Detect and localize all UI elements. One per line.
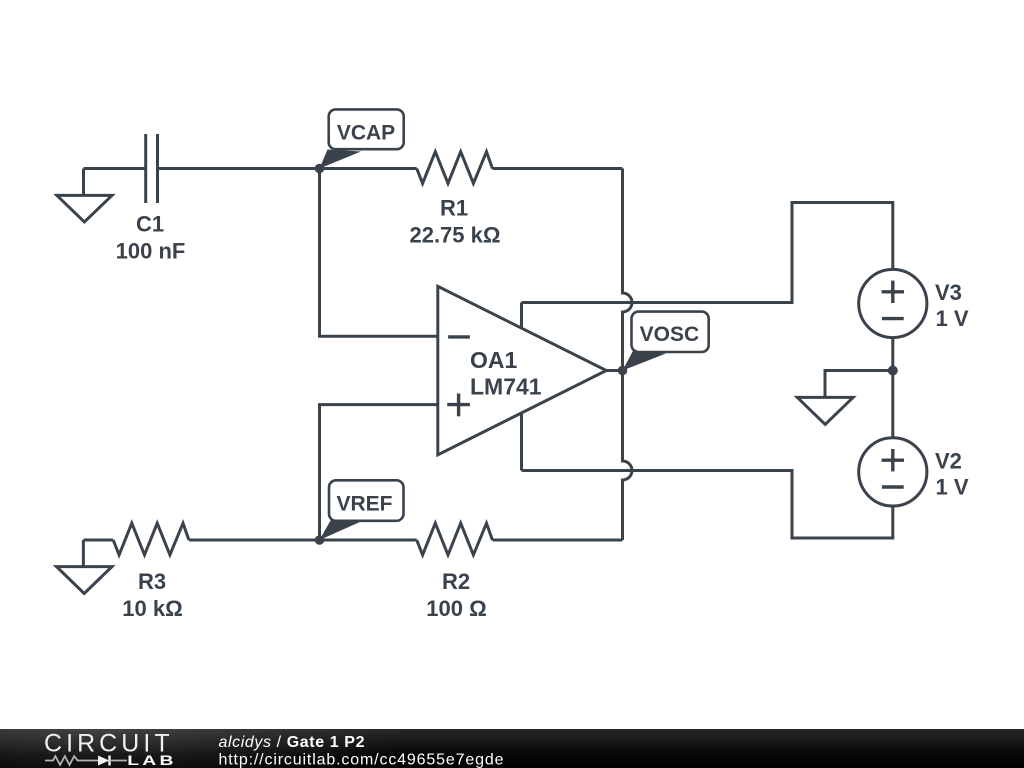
- net label VREF: [320, 480, 404, 540]
- node VREF dot: [315, 535, 325, 545]
- wire VCAP vertical to inverting input: [320, 169, 438, 337]
- logo diode: [98, 755, 109, 765]
- resistor R3: [113, 523, 189, 555]
- resistor R2: [417, 523, 493, 555]
- wire top-left to C1: [84, 167, 146, 170]
- svg-text:R2: R2: [442, 569, 470, 594]
- wire C1 to node VCAP: [158, 167, 417, 170]
- svg-text:V3: V3: [935, 280, 962, 305]
- op-amp power stub top: [520, 303, 523, 329]
- svg-text:C1: C1: [136, 211, 164, 236]
- node VCAP dot: [315, 164, 325, 174]
- svg-text:22.75 kΩ: 22.75 kΩ: [409, 222, 500, 247]
- wire mid node to V2 top: [891, 371, 894, 439]
- wire V3 bottom to mid node: [891, 338, 894, 371]
- ground (bottom-left): [82, 540, 85, 566]
- wire bottom supply to V2: [522, 471, 893, 539]
- svg-text:100 Ω: 100 Ω: [426, 596, 486, 621]
- wire mid node to ground (right): [825, 371, 893, 398]
- svg-text:VOSC: VOSC: [640, 323, 700, 346]
- resistor R1: [417, 152, 493, 184]
- voltage source V2: [859, 438, 927, 506]
- voltage source V3: [859, 269, 927, 337]
- footer bar: [0, 729, 1024, 768]
- svg-text:VCAP: VCAP: [337, 122, 395, 145]
- svg-text:LM741: LM741: [470, 373, 542, 399]
- ground (right): [797, 397, 853, 424]
- wire bottom-left to R3: [83, 539, 113, 542]
- ground (top-left): [82, 169, 85, 196]
- op-amp plus input symbol: [447, 403, 470, 406]
- op-amp OA1 triangle: [438, 286, 607, 455]
- svg-text:V2: V2: [935, 449, 962, 474]
- svg-text:R3: R3: [138, 569, 166, 594]
- svg-text:OA1: OA1: [470, 347, 518, 373]
- wire top supply to V3: [522, 203, 893, 303]
- wire R3 to node VREF: [189, 539, 417, 542]
- node VOSC dot: [618, 366, 628, 376]
- wire VREF vertical to non-inverting input: [320, 405, 438, 540]
- svg-text:LAB: LAB: [127, 752, 177, 768]
- svg-text:VREF: VREF: [336, 493, 392, 516]
- svg-text:1 V: 1 V: [936, 306, 969, 331]
- svg-text:alcidys / Gate 1 P2: alcidys / Gate 1 P2: [219, 734, 366, 751]
- capacitor C1: [144, 134, 147, 203]
- net label VOSC: [623, 312, 709, 371]
- wire R2 to bottom-right corner: [492, 539, 622, 542]
- svg-text:http://circuitlab.com/cc49655e: http://circuitlab.com/cc49655e7egde: [219, 751, 505, 768]
- logo resistor zigzag: [45, 756, 98, 765]
- node mid-supply dot: [888, 366, 898, 376]
- op-amp minus input symbol: [448, 335, 470, 338]
- svg-text:1 V: 1 V: [936, 475, 969, 500]
- svg-text:10 kΩ: 10 kΩ: [122, 596, 182, 621]
- svg-text:100 nF: 100 nF: [116, 238, 186, 263]
- svg-text:R1: R1: [440, 195, 468, 220]
- op-amp power stub bottom: [520, 413, 523, 471]
- wire op-amp output: [606, 369, 622, 372]
- net label VCAP: [320, 109, 404, 168]
- wire right vertical with hops: [623, 169, 633, 541]
- wire R1 to top-right corner: [492, 167, 622, 170]
